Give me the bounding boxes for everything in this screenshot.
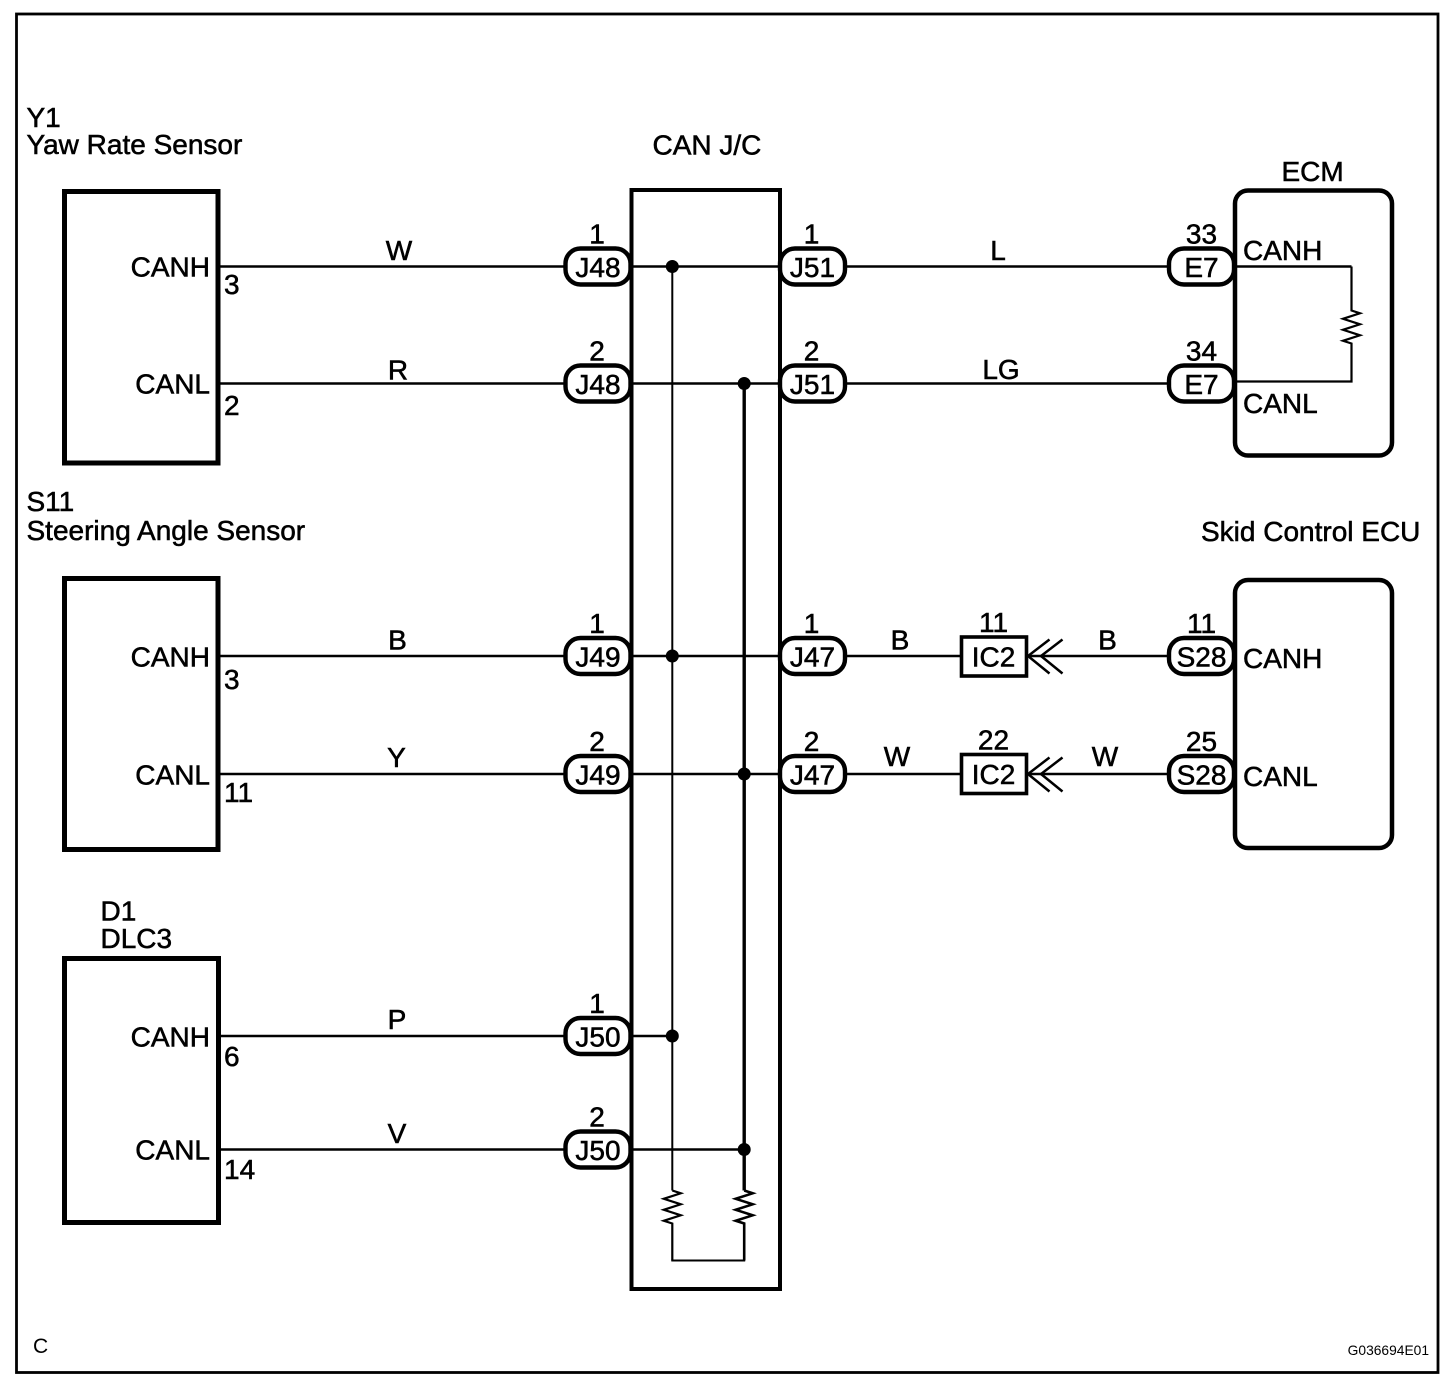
connector J49 pin 2 xyxy=(566,726,631,792)
wire color label Y xyxy=(387,742,406,773)
CANH bus inside CAN J/C xyxy=(671,267,673,1191)
wire color label L xyxy=(990,235,1006,266)
svg-text:E7: E7 xyxy=(1184,252,1218,283)
connector J49 pin 1 xyxy=(566,608,631,674)
wire CANH from DLC3 to CAN J/C bus (P) xyxy=(219,1035,672,1037)
component box Skid Control ECU xyxy=(1235,580,1392,848)
resistor CANH termination in CAN J/C xyxy=(664,1191,681,1261)
svg-text:IC2: IC2 xyxy=(972,759,1016,790)
svg-text:LG: LG xyxy=(982,354,1019,385)
svg-text:B: B xyxy=(891,625,910,656)
CANL bus inside CAN J/C xyxy=(743,384,746,1191)
svg-text:3: 3 xyxy=(224,664,240,695)
figure note C xyxy=(33,1335,48,1358)
svg-text:CANL: CANL xyxy=(1243,388,1318,419)
pin label CANH in ECM xyxy=(1243,235,1322,266)
svg-text:2: 2 xyxy=(804,726,820,757)
label D1 xyxy=(101,896,137,927)
svg-text:CANH: CANH xyxy=(131,642,210,673)
resistor CANL termination in CAN J/C xyxy=(736,1191,753,1261)
label CAN J/C xyxy=(653,130,762,161)
svg-text:1: 1 xyxy=(589,219,605,250)
svg-text:22: 22 xyxy=(978,725,1009,756)
svg-text:2: 2 xyxy=(589,336,605,367)
connector J50 pin 1 xyxy=(566,988,631,1054)
svg-text:IC2: IC2 xyxy=(972,642,1016,673)
svg-text:S11: S11 xyxy=(27,486,75,517)
svg-text:E7: E7 xyxy=(1184,369,1218,400)
pin label CANH in Skid Control ECU xyxy=(1243,643,1322,674)
svg-text:CANH: CANH xyxy=(1243,643,1322,674)
connector E7 pin 34 xyxy=(1169,336,1234,402)
connector J51 pin 2 xyxy=(780,336,845,402)
label DLC3 xyxy=(101,923,173,954)
svg-text:J48: J48 xyxy=(575,369,620,400)
component box S11 Steering Angle Sensor xyxy=(65,579,219,850)
svg-text:ECM: ECM xyxy=(1282,156,1344,187)
svg-text:J47: J47 xyxy=(790,760,835,791)
junction box CAN J/C xyxy=(632,190,781,1289)
junction connector IC2 pin 11 xyxy=(962,607,1027,676)
svg-text:CANH: CANH xyxy=(1243,235,1322,266)
svg-text:Yaw Rate Sensor: Yaw Rate Sensor xyxy=(27,129,243,160)
junction dot node CANL row 4 xyxy=(738,768,751,781)
svg-text:L: L xyxy=(990,235,1006,266)
pin label CANH in S11 xyxy=(131,642,210,673)
pin label CANH in DLC3 xyxy=(131,1022,210,1053)
svg-text:S28: S28 xyxy=(1177,760,1227,791)
svg-text:J47: J47 xyxy=(790,642,835,673)
label Steering Angle Sensor xyxy=(27,515,306,546)
wire CANL from DLC3 to CAN J/C bus (V) xyxy=(219,1148,744,1150)
svg-text:J49: J49 xyxy=(575,642,620,673)
wire color label W xyxy=(386,235,413,266)
label Yaw Rate Sensor xyxy=(27,129,243,160)
connector J51 pin 1 xyxy=(780,219,845,285)
pin label CANL in Y1 xyxy=(135,369,210,400)
component box D1 DLC3 xyxy=(65,959,219,1223)
junction dot node CANH row 3 xyxy=(666,650,679,663)
connector S28 pin 25 xyxy=(1169,726,1234,792)
svg-text:Steering Angle Sensor: Steering Angle Sensor xyxy=(27,515,306,546)
wire CANH from Y1 through CAN J/C to ECM (W / L) xyxy=(218,265,1352,267)
svg-text:W: W xyxy=(386,235,413,266)
svg-text:2: 2 xyxy=(589,726,605,757)
svg-text:25: 25 xyxy=(1186,726,1217,757)
wire CANH from S11 through CAN J/C to Skid Control ECU (B) xyxy=(218,655,1235,657)
pin number 3 at Y1 xyxy=(224,269,240,300)
wire color label P xyxy=(388,1004,407,1035)
svg-text:CANH: CANH xyxy=(131,1022,210,1053)
svg-text:W: W xyxy=(884,741,911,772)
svg-text:2: 2 xyxy=(589,1102,605,1133)
connector J48 pin 2 xyxy=(566,336,631,402)
svg-text:CANL: CANL xyxy=(135,760,210,791)
svg-text:11: 11 xyxy=(1187,608,1216,639)
wire color label LG xyxy=(982,354,1019,385)
connector J47 pin 1 xyxy=(780,608,845,674)
svg-text:3: 3 xyxy=(224,269,240,300)
svg-text:CANH: CANH xyxy=(131,252,210,283)
connector J50 pin 2 xyxy=(566,1102,631,1168)
component box Y1 Yaw Rate Sensor xyxy=(65,192,219,464)
svg-text:6: 6 xyxy=(224,1041,240,1072)
wire color label B between J47 and IC2 xyxy=(891,625,910,656)
connector E7 pin 33 xyxy=(1169,219,1234,285)
label ECM xyxy=(1282,156,1344,187)
svg-text:2: 2 xyxy=(224,390,240,421)
wire color label R xyxy=(388,355,408,386)
svg-text:S28: S28 xyxy=(1177,642,1227,673)
resistor ECM termination with loop wires xyxy=(1236,267,1360,382)
pin number 14 at DLC3 xyxy=(224,1154,255,1185)
figure code G036694E01 xyxy=(1348,1343,1429,1358)
svg-text:1: 1 xyxy=(804,219,820,250)
junction dot node CANH row 1 xyxy=(666,260,679,273)
svg-text:33: 33 xyxy=(1186,219,1217,250)
svg-text:CANL: CANL xyxy=(135,369,210,400)
pin number 3 at S11 xyxy=(224,664,240,695)
svg-text:34: 34 xyxy=(1186,336,1217,367)
svg-text:J50: J50 xyxy=(575,1135,620,1166)
svg-text:J48: J48 xyxy=(575,252,620,283)
svg-text:J51: J51 xyxy=(790,252,835,283)
svg-text:2: 2 xyxy=(804,336,820,367)
pin number 6 at DLC3 xyxy=(224,1041,240,1072)
connector J48 pin 1 xyxy=(566,219,631,285)
wire color label B xyxy=(388,625,407,656)
svg-text:D1: D1 xyxy=(101,896,137,927)
svg-text:J50: J50 xyxy=(575,1022,620,1053)
junction dot node CANL row 2 xyxy=(738,377,751,390)
svg-text:G036694E01: G036694E01 xyxy=(1348,1343,1429,1358)
svg-text:1: 1 xyxy=(589,988,605,1019)
svg-text:CANL: CANL xyxy=(1243,761,1318,792)
pin label CANL in DLC3 xyxy=(135,1135,210,1166)
svg-text:Skid Control ECU: Skid Control ECU xyxy=(1201,516,1420,547)
svg-text:14: 14 xyxy=(224,1154,255,1185)
svg-text:CANL: CANL xyxy=(135,1135,210,1166)
svg-text:Y: Y xyxy=(387,742,406,773)
wire color label W between IC2 and S28 xyxy=(1092,741,1119,772)
connector S28 pin 11 xyxy=(1169,608,1234,674)
pin number 11 at S11 xyxy=(224,777,253,808)
twisted pair marker at IC2 row 4 xyxy=(1028,758,1063,792)
pin number 2 at Y1 xyxy=(224,390,240,421)
junction connector IC2 pin 22 xyxy=(962,725,1027,794)
wire joining termination resistors at bottom of CAN J/C xyxy=(671,1260,745,1262)
svg-text:C: C xyxy=(33,1335,48,1358)
twisted pair marker at IC2 row 3 xyxy=(1028,640,1063,674)
svg-text:DLC3: DLC3 xyxy=(101,923,173,954)
svg-text:J49: J49 xyxy=(575,760,620,791)
wire CANL from S11 through CAN J/C to Skid Control ECU (Y / W) xyxy=(218,773,1235,775)
wire color label W between J47 and IC2 xyxy=(884,741,911,772)
junction dot node CANH row 5 xyxy=(666,1030,679,1043)
svg-text:B: B xyxy=(1098,625,1117,656)
svg-text:1: 1 xyxy=(804,608,820,639)
component box ECM xyxy=(1235,191,1392,456)
svg-text:R: R xyxy=(388,355,408,386)
svg-text:W: W xyxy=(1092,741,1119,772)
pin label CANL in ECM xyxy=(1243,388,1318,419)
connector J47 pin 2 xyxy=(780,726,845,792)
junction dot node CANL row 6 xyxy=(738,1143,751,1156)
pin label CANL in Skid Control ECU xyxy=(1243,761,1318,792)
svg-text:B: B xyxy=(388,625,407,656)
svg-text:11: 11 xyxy=(979,607,1008,638)
label S11 xyxy=(27,486,75,517)
svg-text:CAN J/C: CAN J/C xyxy=(653,130,762,161)
pin label CANH in Y1 xyxy=(131,252,210,283)
svg-text:J51: J51 xyxy=(790,369,835,400)
label Skid Control ECU xyxy=(1201,516,1420,547)
svg-text:11: 11 xyxy=(224,777,253,808)
wire CANL from Y1 through CAN J/C to ECM (R / LG) xyxy=(218,382,1235,384)
wire color label V xyxy=(388,1118,407,1149)
label Y1 xyxy=(27,102,61,133)
svg-text:1: 1 xyxy=(589,608,605,639)
wire color label B between IC2 and S28 xyxy=(1098,625,1117,656)
svg-text:V: V xyxy=(388,1118,407,1149)
pin label CANL in S11 xyxy=(135,760,210,791)
svg-text:P: P xyxy=(388,1004,407,1035)
